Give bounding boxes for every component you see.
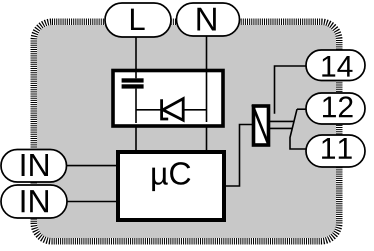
terminal 11 (306, 135, 365, 167)
wire coil to contact arm upper (270, 120, 294, 122)
wire terminal 14 to open contact (275, 66, 309, 114)
wire diode to N line (184, 109, 207, 111)
zener diode triangle (163, 99, 183, 121)
wire capacitor down (135, 89, 137, 123)
capacitor plate 2 (122, 84, 144, 88)
wire power block to microcontroller left (135, 126, 137, 151)
device enclosure body (37, 25, 336, 238)
device enclosure hatched border (37, 25, 336, 238)
terminal 14 (306, 50, 365, 81)
capacitor plate 1 (122, 78, 144, 82)
wire power block to microcontroller right (206, 126, 208, 151)
terminal L (105, 3, 171, 37)
wire N line inside block (206, 71, 208, 122)
microcontroller label µC (152, 162, 190, 191)
zener diode cathode bar (162, 99, 169, 119)
wire terminal IN upper to microcontroller (60, 165, 118, 167)
terminal N (177, 3, 240, 36)
relay coil (254, 106, 269, 145)
wire terminal N down to power block (206, 34, 208, 72)
power supply block (113, 71, 223, 127)
wire node to diode anode (136, 109, 161, 111)
changeover contact arm (290, 109, 308, 149)
terminal IN upper (1, 150, 67, 183)
wire terminal IN lower to microcontroller (60, 201, 118, 203)
wire coil to contact arm lower (270, 127, 292, 129)
terminal IN lower (1, 185, 67, 218)
microcontroller block (118, 152, 224, 220)
terminal 12 (306, 93, 365, 124)
wire L into capacitor (135, 71, 137, 78)
wire terminal 12 stub (297, 108, 308, 110)
wire microcontroller to relay coil (224, 125, 252, 187)
wire terminal L down to power block (135, 34, 137, 72)
relay coil diagonal (253, 105, 270, 146)
